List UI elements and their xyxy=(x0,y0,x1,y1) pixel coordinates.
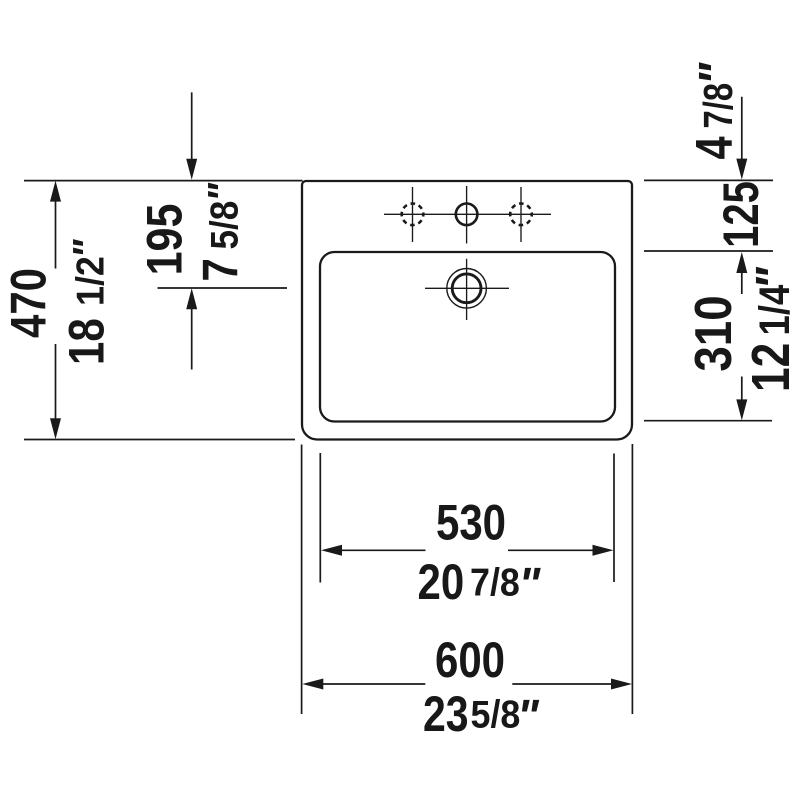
svg-text:310: 310 xyxy=(685,295,742,371)
svg-text:4: 4 xyxy=(685,136,744,159)
svg-text:125: 125 xyxy=(713,181,769,248)
svg-text:12: 12 xyxy=(741,343,800,392)
svg-text:470: 470 xyxy=(0,268,56,338)
svg-text:530: 530 xyxy=(436,494,506,550)
svg-text:": " xyxy=(66,239,110,259)
svg-text:195: 195 xyxy=(136,204,192,276)
svg-text:5/8: 5/8 xyxy=(471,692,521,736)
svg-text:5/8: 5/8 xyxy=(202,201,246,250)
svg-text:18: 18 xyxy=(58,318,114,365)
svg-text:20: 20 xyxy=(418,554,465,610)
svg-text:1/2: 1/2 xyxy=(68,256,112,306)
svg-text:7: 7 xyxy=(192,258,248,281)
svg-text:1/4: 1/4 xyxy=(751,285,798,336)
svg-text:": " xyxy=(519,558,542,610)
svg-text:600: 600 xyxy=(435,632,505,688)
svg-text:": " xyxy=(747,266,800,290)
svg-text:": " xyxy=(201,182,245,202)
svg-text:": " xyxy=(690,62,743,86)
svg-text:": " xyxy=(517,690,540,742)
svg-text:23: 23 xyxy=(423,686,469,742)
svg-text:7/8: 7/8 xyxy=(470,560,520,604)
svg-text:7/8: 7/8 xyxy=(694,83,740,129)
